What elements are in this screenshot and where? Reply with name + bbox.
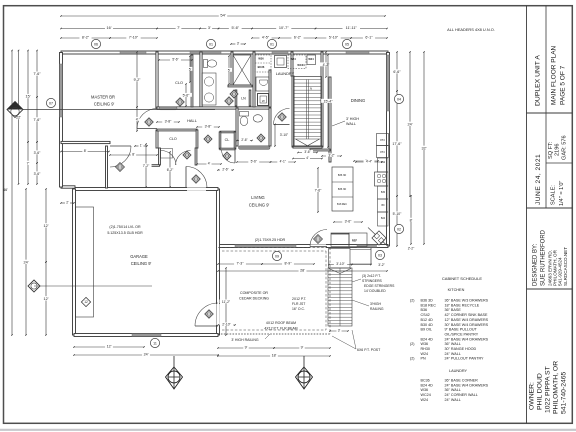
svg-text:7'-6": 7'-6" bbox=[33, 72, 41, 76]
wall stairs left bbox=[292, 76, 294, 147]
svg-text:10'-7": 10'-7" bbox=[279, 26, 289, 30]
marker door sym garage side bbox=[205, 310, 213, 318]
wall garage right / living left bbox=[217, 189, 220, 335]
label stair stringers bbox=[352, 274, 395, 293]
svg-text:24" BASE W/4 DRAWERS: 24" BASE W/4 DRAWERS bbox=[445, 383, 489, 387]
svg-text:GAR: 576: GAR: 576 bbox=[562, 135, 568, 160]
wall stairs right bbox=[321, 52, 323, 147]
svg-text:12': 12' bbox=[107, 345, 112, 349]
dim 15'-4 bbox=[321, 54, 335, 148]
svg-text:BC36: BC36 bbox=[258, 65, 265, 69]
svg-text:32': 32' bbox=[422, 146, 427, 150]
wall linen right bbox=[249, 90, 251, 106]
svg-text:(2): (2) bbox=[410, 342, 415, 346]
garage entry door bbox=[186, 167, 207, 188]
dim 2'-6 cl bbox=[217, 167, 234, 171]
svg-text:LN: LN bbox=[241, 97, 246, 101]
svg-text:07: 07 bbox=[49, 101, 53, 105]
title: designed by bbox=[533, 229, 547, 286]
svg-text:6'-1": 6'-1" bbox=[365, 36, 373, 40]
label LAUNDRY bbox=[276, 71, 295, 76]
svg-text:05: 05 bbox=[345, 42, 349, 46]
dim 4'-4 dining bottom bbox=[355, 159, 383, 163]
wall shower left bbox=[231, 52, 233, 86]
svg-text:06: 06 bbox=[94, 42, 98, 46]
svg-text:(2): (2) bbox=[410, 357, 415, 361]
marker door sym garage entry bbox=[192, 175, 200, 183]
dim 3' stairs bottom bbox=[329, 328, 349, 332]
svg-text:2'-6": 2'-6" bbox=[222, 167, 228, 171]
svg-text:MASTER BR: MASTER BR bbox=[91, 95, 115, 100]
svg-text:KITCHEN: KITCHEN bbox=[448, 288, 465, 292]
label 6X6 post bbox=[332, 330, 381, 352]
deck door arc bbox=[310, 230, 327, 247]
svg-text:CL: CL bbox=[225, 138, 230, 142]
svg-text:9': 9' bbox=[245, 346, 248, 350]
svg-text:4'-2": 4'-2" bbox=[323, 63, 331, 67]
svg-text:14' DOUBLED: 14' DOUBLED bbox=[364, 289, 386, 293]
svg-text:2X12 P.T.: 2X12 P.T. bbox=[292, 297, 306, 301]
svg-text:PN: PN bbox=[421, 357, 426, 361]
window kitchen sink bbox=[357, 245, 377, 247]
svg-text:REF: REF bbox=[352, 239, 358, 243]
svg-text:12" BASE W/4 DRAWERS: 12" BASE W/4 DRAWERS bbox=[445, 318, 489, 322]
svg-text:(2)1.75X14 LVL OR: (2)1.75X14 LVL OR bbox=[109, 225, 141, 229]
svg-text:FLR JST: FLR JST bbox=[292, 302, 305, 306]
dim 4' kitchen top bbox=[353, 158, 379, 162]
svg-text:04: 04 bbox=[397, 97, 401, 101]
svg-text:DESIGNED BY:: DESIGNED BY: bbox=[533, 243, 539, 286]
marker circle 07 bbox=[46, 98, 55, 107]
svg-text:4'-4": 4'-4" bbox=[366, 159, 372, 163]
wall exterior top bbox=[61, 51, 388, 54]
wall bath2 upper divider bbox=[269, 70, 271, 107]
svg-text:3'-6": 3'-6" bbox=[34, 172, 42, 176]
svg-text:2'-10": 2'-10" bbox=[222, 322, 231, 326]
svg-text:B30 4D: B30 4D bbox=[421, 323, 434, 327]
label DINING bbox=[351, 98, 365, 103]
svg-text:JUNE 24, 2021: JUNE 24, 2021 bbox=[535, 154, 542, 205]
svg-text:46': 46' bbox=[3, 188, 8, 192]
kitchen bottom counter with fridge bbox=[331, 233, 367, 247]
dim 2'-10 bbox=[217, 322, 236, 326]
wall cl top bbox=[220, 131, 235, 133]
svg-text:11'-11": 11'-11" bbox=[346, 26, 358, 30]
dim 1' jamb bbox=[134, 143, 148, 147]
dim 2' step bbox=[60, 200, 75, 204]
dim 11'-2 deck left bbox=[219, 267, 232, 336]
svg-text:PHIL DOUD: PHIL DOUD bbox=[537, 373, 544, 410]
window dining bbox=[387, 55, 390, 111]
title: date JUNE 24, 2021 bbox=[535, 154, 542, 205]
svg-text:1/4" = 1'0": 1/4" = 1'0" bbox=[559, 181, 565, 206]
svg-text:28': 28' bbox=[300, 269, 305, 273]
label 3' high railing deck bbox=[231, 334, 270, 342]
dim 54' overall bbox=[60, 13, 386, 18]
dim 2'-6 bath bbox=[236, 138, 253, 142]
svg-text:CEILING 9': CEILING 9' bbox=[94, 102, 115, 107]
pantry cabinets PN bbox=[377, 134, 389, 158]
label CLO hall closet bbox=[169, 137, 177, 141]
kitchen cabinet tiny labels bbox=[381, 161, 386, 220]
garage door bbox=[132, 334, 161, 336]
svg-text:30" BASE W/4 DRAWERS: 30" BASE W/4 DRAWERS bbox=[445, 323, 489, 327]
svg-text:4X12 ROOF BEAM: 4X12 ROOF BEAM bbox=[266, 321, 296, 325]
svg-text:3': 3' bbox=[338, 328, 341, 332]
wall hall closet left bbox=[156, 130, 158, 148]
dim 4'-1 living top bbox=[270, 159, 296, 163]
svg-text:LAUNDRY: LAUNDRY bbox=[449, 369, 468, 373]
svg-text:CEDAR DECKING: CEDAR DECKING bbox=[239, 297, 269, 301]
svg-text:W24: W24 bbox=[290, 57, 296, 61]
svg-text:4': 4' bbox=[208, 161, 211, 165]
svg-text:CLO: CLO bbox=[169, 137, 177, 141]
svg-text:3'-8": 3'-8" bbox=[165, 119, 173, 123]
label composite decking bbox=[239, 291, 269, 301]
svg-text:RAILING: RAILING bbox=[370, 307, 384, 311]
wall bath2 left wall bbox=[236, 108, 238, 146]
marker circle 03 bbox=[375, 250, 384, 259]
dim 3'-6 stairs bbox=[297, 150, 318, 154]
dim 6'-2 entry bbox=[164, 151, 175, 188]
wall garage left bbox=[73, 189, 76, 335]
svg-text:3': 3' bbox=[208, 26, 211, 30]
svg-text:DUPLEX UNIT A: DUPLEX UNIT A bbox=[535, 55, 542, 106]
svg-text:7': 7' bbox=[27, 161, 30, 165]
svg-text:DINING: DINING bbox=[351, 98, 365, 103]
dim 5' closet bbox=[187, 55, 192, 83]
svg-text:3': 3' bbox=[237, 41, 240, 45]
dim 3'-8 hall2 bbox=[196, 124, 220, 128]
toilet hall bath bbox=[240, 112, 249, 126]
dim 4' entry bbox=[196, 161, 222, 165]
gap garage side door bbox=[216, 304, 219, 325]
wall closet door jamb right bbox=[195, 148, 197, 165]
svg-text:4': 4' bbox=[136, 117, 139, 121]
dim 5'-6 closet top bbox=[158, 57, 193, 61]
wall bath2 right wall bbox=[269, 108, 271, 146]
dim 8' entry bbox=[60, 149, 110, 153]
svg-text:3'-8": 3'-8" bbox=[205, 124, 213, 128]
wall stairs bottom bbox=[293, 146, 322, 148]
dim 4'-2 dining bbox=[320, 51, 331, 78]
title: owner block bbox=[529, 361, 568, 414]
svg-text:2'-6": 2'-6" bbox=[241, 138, 247, 142]
svg-text:6'-2": 6'-2" bbox=[294, 36, 302, 40]
cl door arc bbox=[222, 150, 236, 164]
section marker left lower bbox=[28, 280, 152, 292]
svg-text:B24 4D: B24 4D bbox=[421, 337, 434, 341]
svg-text:OWNER:: OWNER: bbox=[529, 382, 536, 410]
deck dashed roof outline bbox=[218, 248, 330, 335]
svg-text:6'-6": 6'-6" bbox=[393, 70, 401, 74]
dim 5' shower bbox=[226, 55, 231, 85]
svg-text:18': 18' bbox=[272, 354, 277, 358]
interior staircase bbox=[294, 77, 322, 147]
svg-text:BC36: BC36 bbox=[421, 379, 430, 383]
room label CLO master closet bbox=[175, 81, 183, 85]
svg-text:B36 3D: B36 3D bbox=[421, 299, 434, 303]
laundry lower cabinets bbox=[288, 55, 316, 69]
dim 8' entry2 bbox=[109, 152, 158, 156]
svg-text:24': 24' bbox=[24, 260, 29, 264]
label 3' HIGH WALL with leader bbox=[332, 117, 359, 126]
wall closet door jamb left bbox=[159, 148, 161, 165]
bath2 door arc bbox=[274, 108, 290, 124]
svg-text:B18 REC: B18 REC bbox=[337, 203, 347, 206]
window master left bbox=[60, 64, 63, 117]
svg-text:B24: B24 bbox=[381, 217, 386, 220]
top marker circles bbox=[91, 39, 100, 48]
dim 4' stairs bbox=[292, 156, 323, 160]
kitchen island cabinets bbox=[332, 167, 353, 211]
svg-text:24': 24' bbox=[408, 122, 413, 126]
svg-text:541-929-4524: 541-929-4524 bbox=[558, 257, 563, 286]
svg-text:4': 4' bbox=[306, 156, 309, 160]
svg-text:03: 03 bbox=[378, 253, 382, 257]
wall laundry right bbox=[291, 52, 293, 76]
svg-text:15'-4": 15'-4" bbox=[324, 99, 334, 103]
svg-text:17'-6": 17'-6" bbox=[392, 142, 402, 146]
dim 3'-6 kitchen bottom bbox=[333, 219, 363, 223]
window bbox=[272, 51, 288, 53]
door sym diamonds bbox=[176, 98, 184, 106]
dimension 3ft10 line bbox=[274, 124, 276, 147]
wall entry wall stub left bbox=[148, 165, 160, 167]
wall hall top bbox=[157, 107, 270, 109]
svg-text:COMPOSITE OR: COMPOSITE OR bbox=[240, 291, 268, 295]
marker door sym closet bbox=[183, 151, 191, 159]
svg-text:24': 24' bbox=[144, 353, 149, 357]
wall entry to dining bbox=[310, 149, 330, 151]
wall master right bbox=[156, 52, 158, 108]
svg-text:STRINGERS: STRINGERS bbox=[362, 279, 383, 283]
svg-text:(3) 2x12 P.T.: (3) 2x12 P.T. bbox=[362, 274, 381, 278]
svg-text:EDGE STRINGERS: EDGE STRINGERS bbox=[364, 284, 395, 288]
svg-text:WC24: WC24 bbox=[297, 63, 305, 67]
label deck beams bbox=[264, 321, 297, 331]
svg-text:5': 5' bbox=[228, 68, 231, 72]
svg-text:11: 11 bbox=[153, 341, 157, 345]
svg-text:3'-10": 3'-10" bbox=[280, 133, 289, 137]
svg-text:(2): (2) bbox=[410, 299, 415, 303]
svg-text:W24: W24 bbox=[421, 398, 429, 402]
svg-text:B18 REC: B18 REC bbox=[421, 303, 437, 307]
kitchen wall cabinets strip bbox=[375, 158, 389, 226]
svg-text:24" CORNER WALL: 24" CORNER WALL bbox=[445, 393, 478, 397]
svg-text:5.125X13.5 GLB HDR: 5.125X13.5 GLB HDR bbox=[107, 231, 143, 235]
svg-text:OIL/SPICE PANTRY: OIL/SPICE PANTRY bbox=[445, 332, 479, 336]
svg-text:36" WALL: 36" WALL bbox=[445, 342, 461, 346]
cabinet schedule heading bbox=[442, 276, 482, 281]
svg-text:W36: W36 bbox=[421, 342, 429, 346]
svg-text:54': 54' bbox=[220, 13, 225, 18]
marker door sym bath2 bbox=[278, 113, 286, 121]
svg-text:02: 02 bbox=[397, 227, 401, 231]
label deck joists bbox=[292, 297, 306, 311]
wall laundry left bbox=[253, 52, 255, 107]
svg-text:GARAGE: GARAGE bbox=[130, 254, 148, 259]
wall porch jamb wall bbox=[106, 146, 108, 188]
svg-text:2': 2' bbox=[66, 200, 69, 204]
svg-text:2196: 2196 bbox=[555, 144, 561, 156]
marker door sym deck bbox=[314, 235, 323, 244]
marker circle 11 bbox=[150, 338, 159, 347]
label garage header bbox=[107, 225, 143, 235]
bath2 pocket door grey bar bbox=[239, 146, 271, 150]
master door arc bbox=[137, 109, 157, 129]
dimension 2ft2 line bbox=[396, 230, 398, 247]
title: DUPLEX UNIT A bbox=[535, 55, 542, 106]
wall closet/bath divider bbox=[200, 52, 202, 107]
dim 3'-2 landing bbox=[351, 264, 372, 266]
svg-text:CEILING 9': CEILING 9' bbox=[131, 261, 152, 266]
svg-text:CEILING 9': CEILING 9' bbox=[249, 203, 270, 208]
svg-text:3'-2": 3'-2" bbox=[378, 263, 385, 267]
front door arc bbox=[110, 146, 131, 167]
svg-text:6'-2": 6'-2" bbox=[167, 168, 174, 172]
wall cl bottom bbox=[220, 148, 235, 150]
svg-text:2'-2": 2'-2" bbox=[408, 247, 415, 251]
svg-text:3'-6": 3'-6" bbox=[34, 151, 42, 155]
svg-text:5': 5' bbox=[189, 67, 192, 71]
title: MAIN FLOOR PLAN PAGE 5 OF 7 bbox=[551, 45, 567, 105]
dim 3'-2 stairwall bbox=[321, 153, 342, 157]
dim 9'-2 master bbox=[131, 51, 142, 108]
wall dining left 3ft high wall bbox=[329, 77, 331, 162]
marker door sym front bbox=[116, 163, 125, 172]
section marker left upper bbox=[7, 102, 215, 118]
wall hall closet right bbox=[196, 130, 198, 148]
dim 3' small bbox=[230, 41, 246, 45]
svg-text:RH30: RH30 bbox=[421, 347, 430, 351]
svg-text:16" O.C.: 16" O.C. bbox=[292, 307, 305, 311]
svg-text:12': 12' bbox=[44, 297, 49, 301]
svg-text:W: W bbox=[262, 99, 265, 103]
wall cl left bbox=[219, 132, 221, 149]
svg-text:24" WALL: 24" WALL bbox=[445, 352, 461, 356]
dim 7'-2 entry bbox=[140, 143, 151, 188]
svg-text:01: 01 bbox=[209, 42, 213, 46]
svg-text:SLRDCASCO.NET: SLRDCASCO.NET bbox=[563, 247, 568, 286]
title: scale bbox=[551, 181, 566, 206]
label 3' high railing stairs bbox=[352, 300, 384, 311]
svg-text:4X12 P.T. FLR BEAM: 4X12 P.T. FLR BEAM bbox=[264, 327, 297, 331]
svg-text:36" BASE W/3 DRAWERS: 36" BASE W/3 DRAWERS bbox=[445, 299, 489, 303]
cabinet schedule laundry bbox=[421, 369, 489, 402]
svg-text:LAUNDRY: LAUNDRY bbox=[276, 71, 295, 76]
svg-text:B9 OIL: B9 OIL bbox=[421, 328, 432, 332]
svg-text:8': 8' bbox=[84, 149, 87, 153]
svg-text:8'-2": 8'-2" bbox=[82, 36, 90, 40]
svg-text:30" RANGE HOOD: 30" RANGE HOOD bbox=[445, 347, 477, 351]
svg-text:SUE RUTHERFORD: SUE RUTHERFORD bbox=[541, 229, 547, 286]
svg-text:1022 PIPPA ST: 1022 PIPPA ST bbox=[545, 366, 552, 413]
svg-text:W24: W24 bbox=[421, 352, 429, 356]
washer dryer bbox=[256, 77, 269, 106]
svg-text:SQ FT:: SQ FT: bbox=[548, 141, 554, 159]
wall master closet divider bbox=[191, 55, 193, 107]
svg-text:B24 4D: B24 4D bbox=[421, 383, 434, 387]
svg-text:W36: W36 bbox=[421, 388, 429, 392]
window bbox=[346, 51, 369, 53]
note ALL HEADERS 4X8 U.N.O. bbox=[447, 27, 495, 32]
svg-text:9" BASE PULLOUT: 9" BASE PULLOUT bbox=[445, 328, 478, 332]
marker 12 garage bbox=[81, 297, 90, 306]
wall hall closet top bbox=[157, 129, 197, 131]
svg-text:4'-1": 4'-1" bbox=[280, 159, 286, 163]
svg-text:1': 1' bbox=[140, 143, 143, 147]
garage side closet bbox=[76, 207, 94, 317]
svg-text:PN: PN bbox=[380, 138, 384, 142]
cabinet schedule kitchen bbox=[410, 288, 489, 361]
svg-text:HALL: HALL bbox=[187, 118, 198, 123]
svg-text:7'-6": 7'-6" bbox=[33, 118, 41, 122]
svg-text:09: 09 bbox=[275, 254, 279, 258]
svg-text:8': 8' bbox=[410, 218, 413, 222]
svg-text:6X6 P.T. POST: 6X6 P.T. POST bbox=[357, 348, 381, 352]
wall cl right bbox=[234, 132, 236, 149]
closet double doors bbox=[161, 151, 176, 166]
svg-text:3' HIGH RAILING: 3' HIGH RAILING bbox=[231, 338, 259, 342]
svg-text:CLO: CLO bbox=[175, 81, 183, 85]
wall exterior right bbox=[387, 53, 390, 247]
svg-text:9'-2": 9'-2" bbox=[134, 78, 142, 82]
svg-text:36" BASE: 36" BASE bbox=[445, 308, 462, 312]
wall shower bottom bbox=[228, 85, 252, 87]
label HALL bbox=[187, 118, 198, 123]
dim 5'-6" bbox=[180, 83, 191, 107]
svg-text:24" PULLOUT PANTRY: 24" PULLOUT PANTRY bbox=[445, 357, 485, 361]
svg-text:11'-2": 11'-2" bbox=[222, 300, 231, 304]
svg-text:3'-2": 3'-2" bbox=[328, 153, 334, 157]
svg-text:B30: B30 bbox=[381, 191, 386, 194]
svg-text:5'-6": 5'-6" bbox=[251, 159, 257, 163]
svg-text:36" WALL: 36" WALL bbox=[445, 388, 461, 392]
svg-text:WALL: WALL bbox=[346, 122, 356, 126]
title: SQ FT 2196 GAR 576 bbox=[548, 135, 568, 160]
svg-text:18" BASE RECYCLE: 18" BASE RECYCLE bbox=[445, 303, 480, 307]
svg-text:PHILOMATH, OR: PHILOMATH, OR bbox=[553, 361, 560, 414]
marker circle 09 bbox=[272, 251, 281, 260]
shower with X bbox=[233, 55, 251, 85]
svg-text:B36 3D: B36 3D bbox=[338, 188, 347, 191]
svg-text:PN: PN bbox=[380, 150, 384, 154]
svg-text:7'-10": 7'-10" bbox=[129, 36, 139, 40]
svg-text:3'-10": 3'-10" bbox=[336, 262, 345, 266]
garage side door arc bbox=[195, 303, 218, 326]
wall linen left bbox=[235, 90, 237, 106]
dim 28' living bbox=[217, 268, 388, 272]
svg-text:CABINET SCHEDULE: CABINET SCHEDULE bbox=[442, 276, 482, 281]
svg-text:B36: B36 bbox=[421, 308, 428, 312]
svg-text:5'-6": 5'-6" bbox=[183, 93, 191, 97]
window bbox=[120, 51, 146, 53]
svg-text:7'-3": 7'-3" bbox=[237, 262, 245, 266]
svg-text:5'-6": 5'-6" bbox=[172, 57, 178, 61]
svg-text:16': 16' bbox=[107, 26, 112, 30]
master closet pocket door bbox=[159, 107, 177, 110]
dimension 46ft line bbox=[11, 50, 13, 336]
label GARAGE bbox=[130, 254, 151, 266]
svg-text:CS42: CS42 bbox=[421, 313, 430, 317]
living door to deck bbox=[310, 244, 326, 247]
svg-text:3'HIGH: 3'HIGH bbox=[370, 302, 382, 306]
patio slider header bbox=[235, 245, 296, 247]
wall garage top bbox=[74, 188, 218, 191]
title: designer address bbox=[548, 247, 569, 286]
corner sink bbox=[368, 228, 388, 247]
